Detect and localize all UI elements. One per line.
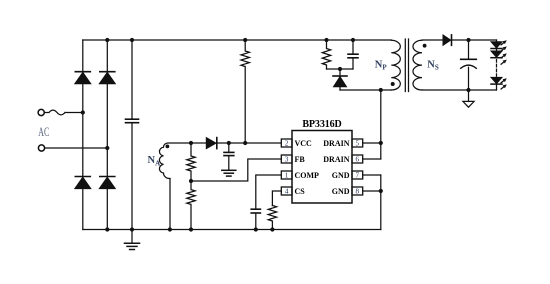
resistor R2 divider lower: [187, 181, 195, 230]
wire FB step: [191, 159, 281, 181]
svg-text:3: 3: [285, 156, 289, 164]
node rail-R4: [270, 227, 274, 231]
resistor R5 snubber: [322, 40, 330, 69]
led LED1: [491, 42, 502, 49]
wire top bus: [83, 39, 392, 41]
node NP polarity dot: [391, 82, 395, 86]
wire COMP lead: [256, 175, 281, 209]
node rail-C1: [130, 227, 134, 231]
node rail-C3: [254, 227, 258, 231]
wire AC bottom lead: [45, 147, 108, 149]
LED string column: [496, 40, 498, 90]
wire led dashed: [496, 60, 498, 77]
svg-text:8: 8: [356, 188, 360, 196]
resistor R3 startup: [241, 40, 249, 143]
diode D1: [75, 72, 91, 84]
svg-text:AC: AC: [38, 125, 49, 139]
capacitor C2 vcc: [224, 143, 234, 170]
pin 6 box: [352, 155, 363, 163]
wire bridge leg1 upper: [82, 40, 84, 72]
node rail-NA: [168, 227, 172, 231]
AC terminal top: [38, 109, 44, 115]
node NA polarity dot: [166, 145, 170, 149]
svg-text:7: 7: [356, 172, 360, 180]
AC terminal bottom: [38, 145, 44, 151]
capacitor C4 snubber: [348, 40, 358, 69]
node gnd8: [379, 189, 383, 193]
node bus-C4: [351, 38, 355, 42]
wire np bottom: [340, 89, 391, 91]
wire secondary top: [422, 39, 497, 41]
capacitor C1: [126, 119, 139, 123]
diode D5 vcc: [206, 138, 217, 149]
svg-text:BP3316D: BP3316D: [302, 119, 341, 130]
led arrows LED1: [501, 40, 507, 51]
IC U1 body: [292, 131, 352, 204]
wire NA lower: [169, 179, 171, 230]
wire bottom rail: [83, 229, 381, 231]
svg-text:DRAIN: DRAIN: [323, 155, 349, 164]
node NS polarity dot: [423, 44, 427, 48]
wire gnd vertical: [380, 175, 382, 230]
node drain5: [379, 141, 383, 145]
node rail-R2: [189, 227, 193, 231]
svg-text:CS: CS: [295, 187, 306, 196]
wire input cap upper: [131, 40, 133, 119]
transformer NP winding: [391, 40, 400, 90]
diode D4: [99, 177, 115, 189]
svg-text:GND: GND: [332, 187, 350, 196]
wire secondary bottom: [422, 89, 497, 91]
wire AC top lead: [65, 112, 83, 114]
node bus-D2: [105, 38, 109, 42]
svg-text:1: 1: [285, 172, 289, 180]
wire bridge leg2 upper: [106, 40, 108, 72]
diode D6 snubber: [333, 69, 347, 90]
led arrows LED3: [501, 78, 507, 89]
capacitor C3 comp: [251, 209, 260, 213]
resistor R4 cs: [268, 206, 276, 230]
wire bridge leg1 middle: [82, 84, 84, 177]
node AC1: [81, 110, 85, 114]
node np bottom: [379, 88, 383, 92]
node bus-R5: [324, 38, 328, 42]
node FB junction: [189, 179, 193, 183]
fuse F1: [44, 110, 65, 115]
wire input cap lower: [131, 123, 133, 230]
wire bridge leg2 lower: [106, 189, 108, 230]
node bus-R3: [243, 38, 247, 42]
svg-text:GND: GND: [332, 171, 350, 180]
svg-text:5: 5: [356, 140, 360, 148]
svg-text:VCC: VCC: [295, 139, 313, 148]
wire drain5: [363, 142, 381, 144]
capacitor C5 output: [461, 40, 477, 90]
pin 5 box: [352, 139, 363, 147]
wire vcc line: [191, 142, 281, 144]
svg-text:4: 4: [285, 188, 289, 196]
ground main: [125, 230, 140, 250]
ground output open triangle: [463, 90, 474, 107]
wire bridge leg1 lower: [82, 189, 84, 230]
wire drain vertical: [380, 90, 382, 159]
ground vcc cap: [222, 170, 236, 176]
pin 7 box: [352, 171, 363, 179]
pin 1 box: [281, 171, 292, 179]
svg-text:2: 2: [285, 140, 289, 148]
node AC2: [105, 146, 109, 150]
wire bridge leg2 middle: [106, 84, 108, 177]
transformer NS winding: [413, 40, 422, 90]
led LED2: [491, 51, 502, 58]
node vcc-R1: [189, 141, 193, 145]
wire comp cap lower: [255, 213, 257, 230]
pin 2 box: [281, 139, 292, 147]
node snubber join: [338, 67, 342, 71]
wire CS lead: [272, 191, 281, 206]
node sec-bot-C5: [466, 88, 470, 92]
diode D2: [99, 72, 115, 84]
led LED3: [491, 77, 502, 84]
aux winding NA: [159, 143, 191, 179]
node sec-top-C5: [466, 38, 470, 42]
node vcc-C2: [227, 141, 231, 145]
diode D3: [75, 177, 91, 189]
wire gnd7: [363, 174, 381, 176]
diode D7 output: [443, 35, 452, 45]
svg-text:FB: FB: [295, 155, 306, 164]
pin 4 box: [281, 187, 292, 195]
pin 8 box: [352, 187, 363, 195]
svg-text:DRAIN: DRAIN: [323, 139, 349, 148]
node rail-D4: [105, 227, 109, 231]
node bus-C1: [130, 38, 134, 42]
wire drain6: [363, 158, 381, 160]
pin 3 box: [281, 155, 292, 163]
transformer core: [405, 39, 408, 92]
wire snubber join: [327, 68, 354, 70]
svg-text:6: 6: [356, 156, 360, 164]
node vcc-R3: [243, 141, 247, 145]
wire gnd8: [363, 190, 381, 192]
led arrows LED2: [501, 53, 507, 64]
resistor R1 divider upper: [187, 143, 195, 181]
svg-text:COMP: COMP: [295, 171, 320, 180]
